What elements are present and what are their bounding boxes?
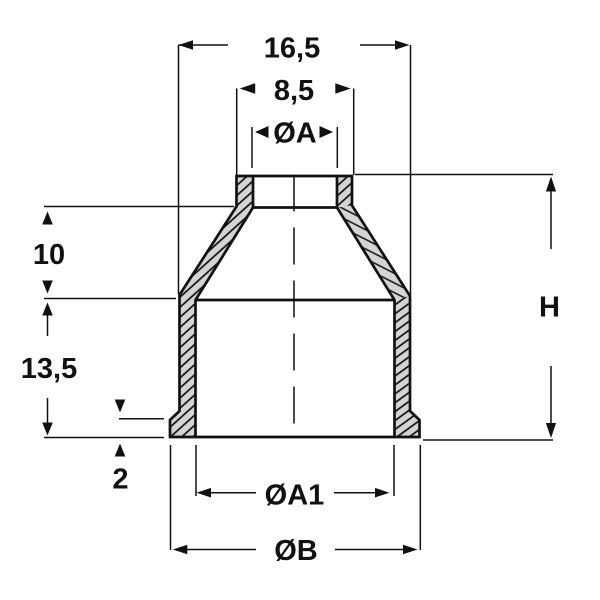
svg-text:ØA1: ØA1 [265, 479, 325, 511]
svg-text:ØA: ØA [273, 118, 317, 150]
svg-text:16,5: 16,5 [264, 33, 320, 65]
svg-text:13,5: 13,5 [21, 353, 77, 385]
svg-text:10: 10 [33, 239, 65, 271]
svg-text:H: H [539, 292, 560, 324]
svg-text:8,5: 8,5 [274, 75, 314, 107]
svg-text:2: 2 [112, 464, 128, 496]
svg-text:ØB: ØB [274, 535, 318, 567]
